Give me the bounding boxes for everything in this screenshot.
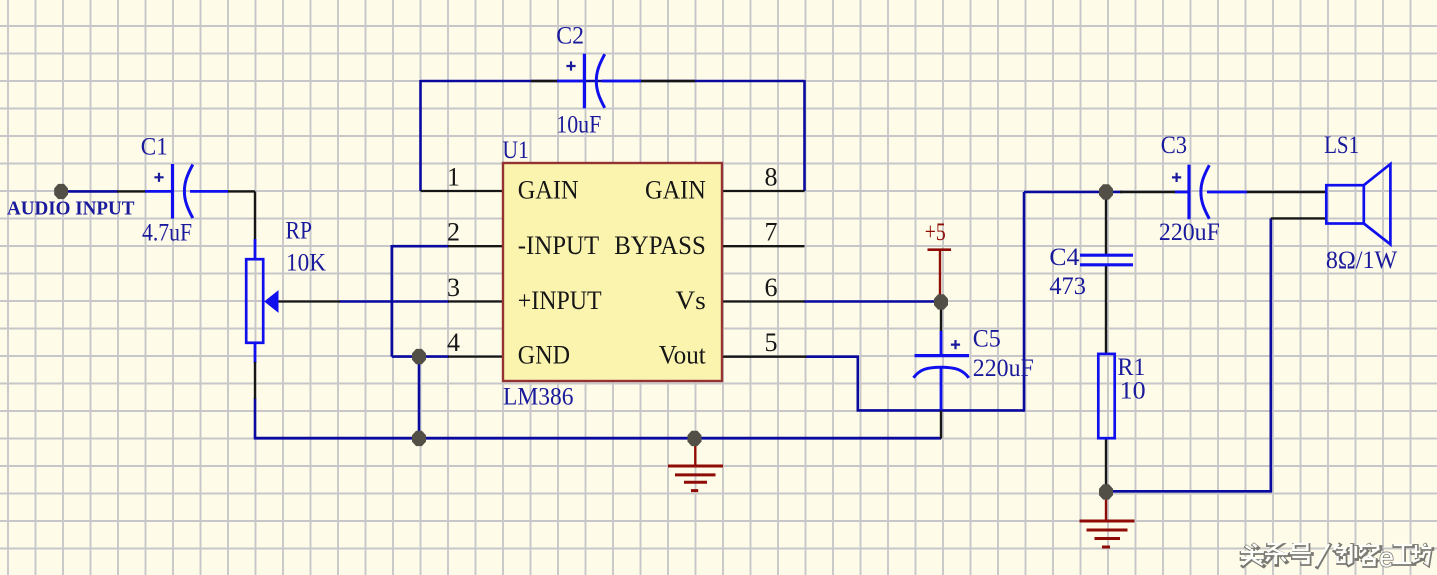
svg-text:AUDIO INPUT: AUDIO INPUT <box>7 197 135 219</box>
svg-text:473: 473 <box>1049 271 1086 300</box>
svg-text:8: 8 <box>765 163 778 192</box>
svg-text:C4: C4 <box>1049 242 1079 271</box>
svg-text:+5: +5 <box>925 217 946 246</box>
svg-text:10K: 10K <box>286 248 327 277</box>
svg-text:C5: C5 <box>973 324 1001 353</box>
svg-text:10uF: 10uF <box>556 109 601 138</box>
svg-text:RP: RP <box>286 216 313 245</box>
svg-text:220uF: 220uF <box>973 353 1034 382</box>
svg-text:Vs: Vs <box>675 286 705 315</box>
svg-text:5: 5 <box>765 328 778 357</box>
svg-text:C1: C1 <box>141 132 168 161</box>
svg-text:1: 1 <box>447 163 460 192</box>
svg-text:3: 3 <box>447 273 460 302</box>
svg-text:6: 6 <box>765 273 778 302</box>
svg-text:U1: U1 <box>502 135 529 164</box>
svg-text:LM386: LM386 <box>503 382 574 411</box>
svg-text:e: e <box>1379 543 1394 573</box>
svg-text:GND: GND <box>518 341 570 370</box>
svg-text:C2: C2 <box>556 21 584 50</box>
svg-text:GAIN: GAIN <box>518 176 579 205</box>
svg-text:GAIN: GAIN <box>645 176 706 205</box>
svg-text:8Ω/1W: 8Ω/1W <box>1326 245 1398 274</box>
svg-text:BYPASS: BYPASS <box>614 231 706 260</box>
svg-text:220uF: 220uF <box>1159 217 1220 246</box>
svg-text:+INPUT: +INPUT <box>518 286 602 315</box>
svg-text:10: 10 <box>1120 375 1146 404</box>
svg-text:LS1: LS1 <box>1324 130 1359 159</box>
svg-text:4: 4 <box>447 328 460 357</box>
svg-text:2: 2 <box>447 218 460 247</box>
svg-text:C3: C3 <box>1161 130 1187 159</box>
svg-text:7: 7 <box>765 218 778 247</box>
svg-text:4.7uF: 4.7uF <box>142 218 192 247</box>
svg-text:Vout: Vout <box>659 341 707 370</box>
svg-text:-INPUT: -INPUT <box>518 231 599 260</box>
